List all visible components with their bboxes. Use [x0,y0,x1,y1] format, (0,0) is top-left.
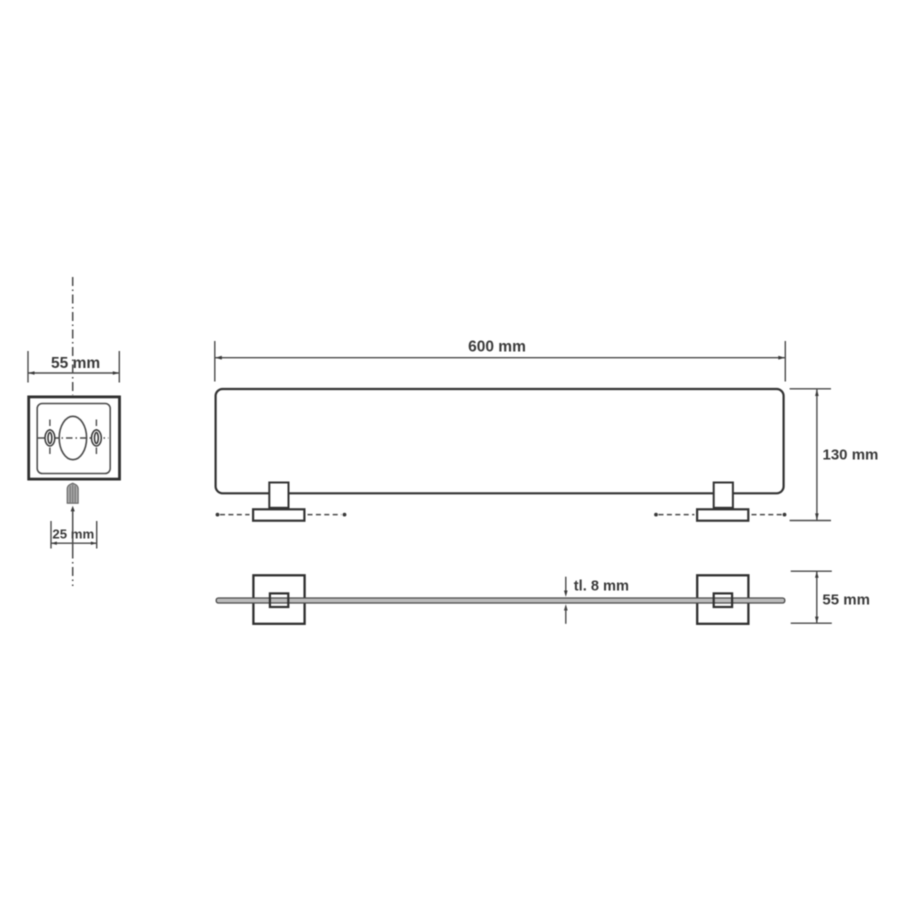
anchor stud [67,483,78,503]
right bracket base [697,509,748,520]
svg-text:55 mm: 55 mm [51,355,100,372]
up arrow under stud [71,506,75,512]
center ellipse [59,416,86,459]
left bracket base [253,509,304,520]
svg-text:55 mm: 55 mm [822,592,870,609]
shelf front panel [216,389,784,493]
top-view left holder [270,593,288,607]
dim 600mm extension tick left [214,341,216,382]
centerline top (left figure) [72,277,74,395]
right screw hole [92,430,102,446]
dim 55mm(right) extension line bottom [791,622,832,624]
dim 55mm(right) arrow top [815,571,819,577]
left screw hole [45,430,55,446]
dim 55mm(right) extension line top [791,570,832,572]
dim 600mm extension tick right [784,341,786,382]
dim 55mm extension tick right [118,351,120,383]
glass shelf strip [216,598,785,603]
wall plate inner rounded square [37,404,110,474]
dim 130mm arrow top [815,389,819,396]
dim 600mm arrow left [215,356,222,360]
dashed axis right of right bracket [752,514,783,516]
dim 25mm extension tick left [50,521,52,549]
dim 55mm arrow left [28,371,34,375]
dashed axis right of left bracket [308,514,342,516]
top-view left square plate [253,575,304,624]
dim 55mm line [29,372,119,374]
dim tl.8mm lower leader [564,604,568,610]
centerline bottom (left figure) [72,550,74,587]
top-view right square plate [697,575,748,624]
top-view right holder [714,593,732,607]
dim 600mm arrow right [778,356,785,360]
dim 25mm line [51,542,96,544]
svg-text:tl. 8 mm: tl. 8 mm [574,579,629,595]
right screw vertical dashed [95,420,97,457]
dim 130mm extension line top [790,388,831,390]
dim tl.8mm upper leader [565,577,567,594]
dim 25mm extension tick right [96,521,98,549]
svg-text:600 mm: 600 mm [468,339,526,356]
dim 130mm arrow bottom [815,513,819,520]
right bracket stem [714,483,733,508]
dim 55mm extension tick left [27,351,29,383]
left screw vertical dashed [49,420,51,457]
dim 55mm arrow right [113,371,119,375]
dim 600mm line [215,357,785,359]
dim 25mm arrow right [91,542,97,545]
svg-text:130 mm: 130 mm [823,447,879,464]
dim 130mm line [816,389,818,520]
wall plate outer square [29,397,120,479]
left bracket stem [269,483,288,508]
dim 55mm(right) arrow bottom [815,617,819,623]
dim 25mm arrow left [51,542,57,545]
dashed axis left of right bracket [654,513,658,517]
dim 130mm extension line bottom [790,520,831,522]
crosshair horizontal dashed [38,437,109,439]
dim 55mm(right) line [816,571,818,623]
svg-text:25 mm: 25 mm [52,527,94,542]
dashed axis left of left bracket [216,513,220,517]
